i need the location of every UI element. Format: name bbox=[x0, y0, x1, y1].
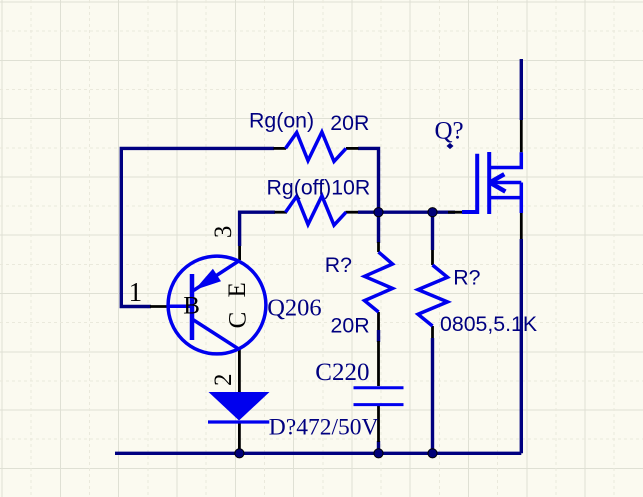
pin R2 top bbox=[431, 250, 434, 265]
pin MOSFET source bbox=[520, 213, 523, 239]
transistor Q206 bbox=[168, 256, 266, 354]
svg-text:R?: R? bbox=[453, 265, 480, 289]
resistor Rg(on) bbox=[286, 132, 347, 161]
svg-text:3: 3 bbox=[210, 226, 237, 239]
svg-text:C220: C220 bbox=[315, 359, 369, 386]
wire MOSFET drain up bbox=[520, 59, 523, 120]
svg-text:20R: 20R bbox=[330, 111, 369, 135]
junction bus / R2 bbox=[428, 449, 437, 458]
svg-text:B: B bbox=[183, 293, 200, 320]
arrow arm lower bbox=[490, 183, 505, 192]
pin 1 Q206 base bbox=[150, 305, 168, 308]
svg-text:2: 2 bbox=[210, 374, 237, 387]
diode cathode bar bbox=[208, 420, 269, 423]
svg-text:1: 1 bbox=[129, 277, 143, 307]
wire capacitor bottom to bus bbox=[377, 441, 380, 453]
wire MOSFET source down to bus bbox=[520, 239, 523, 453]
wire R2 bottom to bus bbox=[431, 338, 434, 453]
MOSFET Q? bbox=[462, 152, 521, 214]
svg-text:R?: R? bbox=[325, 253, 352, 277]
pin 2 Q206 collector bbox=[238, 350, 241, 393]
pins (black) bbox=[150, 120, 521, 453]
junction gate rail / R1 bbox=[374, 208, 383, 217]
emitter arrow bbox=[195, 269, 222, 290]
gate bar bbox=[462, 154, 477, 212]
wire left loop from Rg(on) to base bbox=[121, 148, 274, 306]
pin capacitor top bbox=[377, 341, 380, 386]
wire R2 top bbox=[431, 212, 434, 250]
junction bus / capacitor bbox=[374, 449, 383, 458]
svg-text:Rg(on): Rg(on) bbox=[249, 108, 314, 132]
svg-text:D?472/50V: D?472/50V bbox=[269, 415, 379, 441]
pin diode cathode bbox=[238, 423, 241, 453]
circle bbox=[168, 256, 266, 354]
base lead bbox=[168, 305, 190, 309]
pin Rg(off) 2 bbox=[346, 211, 359, 214]
wire Rg(off) left to pin3 corner bbox=[240, 212, 275, 246]
pin Rg(off) 1 bbox=[275, 211, 288, 214]
svg-text:Q206: Q206 bbox=[267, 294, 321, 321]
wires (navy) bbox=[115, 59, 521, 453]
pin 3 Q206 emitter bbox=[238, 246, 241, 260]
junction dots bbox=[235, 208, 437, 458]
pin R1 top bbox=[377, 242, 380, 252]
collector diagonal bbox=[192, 319, 239, 350]
junction bus / diode bbox=[235, 449, 244, 458]
pin R2 bottom bbox=[431, 326, 434, 338]
pin MOSFET gate bbox=[448, 211, 462, 214]
drain stub bbox=[489, 152, 521, 167]
designator marker diamond bbox=[447, 143, 454, 149]
base bar bbox=[190, 274, 195, 340]
capacitor C220 bottom plate bbox=[354, 403, 404, 406]
junction gate rail / R2 bbox=[428, 208, 437, 217]
svg-text:Q?: Q? bbox=[435, 118, 464, 145]
wire Rg(on) right down to gate rail bbox=[358, 148, 379, 212]
channel bar bbox=[487, 152, 491, 214]
svg-text:0805,5.1K: 0805,5.1K bbox=[440, 312, 537, 336]
arrow arm upper bbox=[490, 174, 504, 182]
capacitor C220 top plate bbox=[354, 386, 404, 389]
svg-text:Rg(off)10R: Rg(off)10R bbox=[267, 176, 371, 200]
wire gate rail bbox=[358, 210, 455, 213]
resistor Rg(off) bbox=[286, 196, 347, 225]
source vertical bbox=[520, 183, 524, 214]
pin Rg(on) 1 bbox=[274, 147, 287, 150]
wire R1 top bbox=[377, 212, 380, 243]
resistor R1 (20R vertical) bbox=[365, 252, 393, 312]
pin R1 bottom bbox=[377, 312, 380, 330]
svg-text:E: E bbox=[224, 282, 251, 297]
emitter diagonal bbox=[194, 261, 240, 291]
wire bottom bus bbox=[115, 452, 521, 455]
source stub bbox=[489, 196, 521, 200]
wire R1 bottom short bbox=[377, 330, 380, 342]
pin MOSFET drain bbox=[520, 120, 523, 152]
pin capacitor bottom bbox=[377, 406, 380, 442]
diode D? triangle bbox=[209, 392, 270, 421]
svg-text:20R: 20R bbox=[331, 313, 370, 337]
resistor R2 (5.1K vertical) bbox=[418, 265, 448, 326]
body stub bbox=[490, 181, 521, 185]
pin Rg(on) 2 bbox=[346, 147, 359, 150]
svg-text:C: C bbox=[225, 312, 252, 329]
